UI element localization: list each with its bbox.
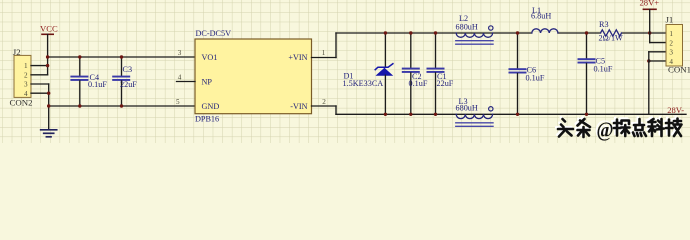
svg-text:3: 3 <box>669 49 673 57</box>
wire GND bus <box>49 105 195 107</box>
svg-text:1: 1 <box>322 49 326 57</box>
capacitor C2 <box>402 33 428 114</box>
svg-text:2: 2 <box>24 71 28 79</box>
svg-text:@: @ <box>597 118 614 142</box>
svg-text:3: 3 <box>24 81 28 89</box>
wire bottom rail <box>336 113 686 115</box>
capacitor C4 <box>70 57 107 106</box>
connector J1 <box>666 15 690 75</box>
wire NP stub <box>177 81 196 83</box>
svg-text:+VIN: +VIN <box>288 53 307 62</box>
svg-text:1.5KE33CA: 1.5KE33CA <box>343 79 384 88</box>
resistor R3 <box>599 20 624 43</box>
svg-text:0.1uF: 0.1uF <box>88 80 107 89</box>
svg-text:3: 3 <box>178 49 182 57</box>
capacitor C1 <box>427 33 454 114</box>
svg-text:28V-: 28V- <box>667 105 684 115</box>
wire VCC bus to VO1 pin <box>48 56 195 58</box>
wire J1 pins3-4 vertical to bottom rail <box>648 52 650 115</box>
watermark 头条 @探点科技 <box>556 116 681 142</box>
svg-text:CON1: CON1 <box>668 65 690 75</box>
svg-text:CON2: CON2 <box>10 97 33 107</box>
inductor L2 <box>456 14 494 44</box>
svg-text:2Ω/1W: 2Ω/1W <box>599 34 624 43</box>
wire J2 pin4 <box>31 92 49 94</box>
power port 28V+ <box>640 0 660 43</box>
junction dots left <box>46 55 49 58</box>
svg-text:0.1uF: 0.1uF <box>594 64 613 73</box>
svg-text:C3: C3 <box>123 65 133 74</box>
svg-text:VO1: VO1 <box>202 53 218 62</box>
svg-text:5: 5 <box>176 98 180 106</box>
capacitor C6 <box>509 33 545 114</box>
svg-text:NP: NP <box>202 77 213 86</box>
wire -VIN to bottom rail <box>312 105 337 107</box>
svg-text:DPB16: DPB16 <box>195 114 219 123</box>
svg-text:6.8uH: 6.8uH <box>531 12 551 21</box>
module U DC-DC5V <box>176 29 326 123</box>
wire J1 pin4 <box>649 60 666 62</box>
svg-text:VCC: VCC <box>40 24 58 34</box>
wire pin3/pin4 vertical to GND bus <box>48 84 50 106</box>
wire J2 pin3 <box>31 83 49 85</box>
wire J2 pin2 <box>31 74 48 76</box>
svg-text:680uH: 680uH <box>456 103 478 112</box>
wire +VIN to top rail <box>312 57 337 59</box>
wire J2 pin1 <box>31 65 48 67</box>
svg-text:22uF: 22uF <box>120 80 137 89</box>
wire VCC vertical to pin2 <box>47 57 49 75</box>
svg-text:4: 4 <box>178 74 182 82</box>
wire top rail <box>336 32 532 34</box>
svg-text:1: 1 <box>24 62 28 70</box>
connector J2 <box>10 47 33 108</box>
svg-text:1: 1 <box>669 30 673 38</box>
inductor L1 <box>531 6 558 33</box>
wire J1 pin3 <box>649 51 666 53</box>
diode D1 TVS <box>343 33 393 114</box>
svg-text:0.1uF: 0.1uF <box>409 79 428 88</box>
wire J1 pin2 <box>650 42 666 44</box>
svg-text:680uH: 680uH <box>456 23 478 32</box>
ground <box>41 106 57 137</box>
svg-text:DC-DC5V: DC-DC5V <box>196 29 232 38</box>
junction dots rails <box>384 31 387 34</box>
svg-text:-VIN: -VIN <box>290 102 307 111</box>
svg-text:0.1uF: 0.1uF <box>526 73 545 82</box>
capacitor C5 <box>578 33 613 114</box>
svg-text:R3: R3 <box>599 20 609 29</box>
svg-text:22uF: 22uF <box>437 79 454 88</box>
svg-text:L2: L2 <box>459 14 468 23</box>
power port VCC <box>40 24 58 57</box>
inductor L3 <box>456 97 494 126</box>
svg-text:J1: J1 <box>666 15 674 25</box>
svg-text:28V+: 28V+ <box>640 0 660 7</box>
svg-text:2: 2 <box>322 98 326 106</box>
capacitor C3 <box>112 57 137 106</box>
svg-text:2: 2 <box>669 39 673 47</box>
svg-text:GND: GND <box>202 102 220 111</box>
